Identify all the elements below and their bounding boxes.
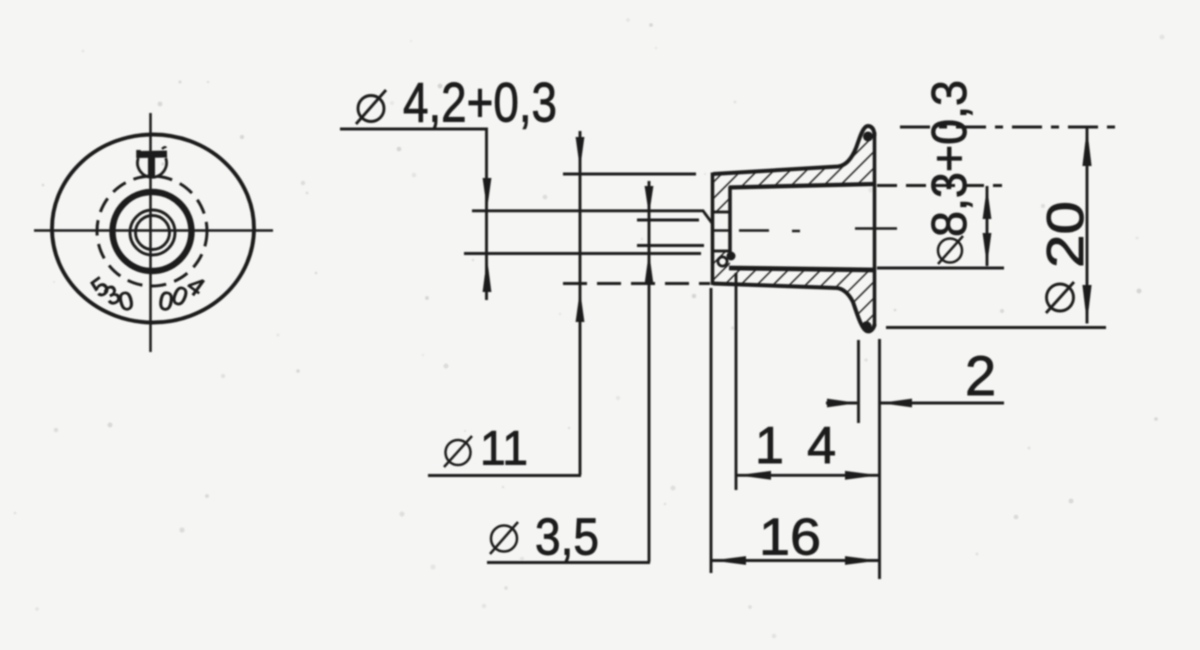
pocket bottom edge — [713, 250, 729, 253]
section left face — [711, 173, 715, 286]
nipple outer bottom line — [464, 252, 701, 255]
ext line D8,3 bottom — [877, 267, 1004, 270]
section lower wall hatched — [713, 251, 875, 331]
dim 2 line right with arrow — [880, 402, 1004, 405]
svg-text:20: 20 — [1037, 201, 1095, 268]
small hole in lower wall — [718, 257, 727, 266]
cavity left wall — [728, 187, 732, 255]
dim D11 arrow down — [576, 137, 585, 169]
ext line inner wall vertical — [735, 273, 738, 490]
dim D11 label — [444, 423, 528, 476]
front view centerline horizontal — [34, 229, 273, 232]
outer circle D20 front view — [52, 135, 254, 323]
section upper wall hatched — [713, 126, 875, 212]
dim D20 line vertical — [1086, 128, 1089, 324]
ext line D11 bottom dashed — [563, 282, 710, 285]
dim D4,2 arrow down — [483, 178, 492, 210]
ext line flange front vertical — [857, 340, 860, 423]
dim D8,3 line vertical — [986, 186, 989, 266]
front view centerline vertical — [149, 113, 152, 352]
dim D3,5 arrow down — [645, 186, 654, 215]
dim D3,5 arrow up — [645, 252, 654, 284]
ext line D20 bottom — [886, 326, 1106, 329]
dim D8,3 arrow down — [983, 233, 992, 266]
svg-text:3,5: 3,5 — [535, 509, 599, 567]
cavity corner blob — [727, 252, 736, 261]
ext line D11 top — [563, 173, 696, 176]
nipple outer top line — [472, 211, 712, 223]
dim D20 arrow up — [1082, 128, 1091, 166]
flange bottom tip blob — [861, 321, 871, 331]
cavity bottom line — [729, 268, 875, 270]
dim 16 arrow right — [845, 556, 879, 565]
dim 14 line — [737, 474, 879, 477]
centerline dashes — [711, 229, 897, 232]
dim 14 arrow right — [845, 471, 879, 480]
dim D3,5 label — [490, 509, 599, 567]
dim 14 arrow left — [738, 471, 772, 480]
dashed circle D11 front view — [97, 176, 207, 286]
dim 16 line — [712, 559, 879, 562]
section top outer edge and flange — [713, 126, 875, 174]
dim 16 arrow left — [713, 556, 747, 565]
trademark T symbol — [137, 147, 167, 178]
dim D4,2+0,3 label — [356, 71, 557, 134]
cavity top line — [729, 184, 875, 188]
svg-text:16: 16 — [759, 509, 821, 567]
nipple bore bottom line — [637, 244, 704, 247]
dim D11 arrow up — [576, 290, 585, 322]
svg-text:11: 11 — [480, 423, 528, 476]
svg-text:8,3+0,3: 8,3+0,3 — [923, 80, 977, 237]
section bottom outer edge and flange — [713, 284, 875, 332]
section right face — [873, 132, 877, 327]
curved part number 530 004 — [85, 270, 210, 318]
nipple bore top line — [637, 219, 699, 222]
thick circle D8.3 front view — [113, 192, 192, 271]
circle D4.4 front view — [130, 210, 175, 255]
ext line part right vertical — [878, 339, 881, 579]
ext line D8,3 top dashed — [877, 184, 1002, 187]
dim D4,2 arrow up — [483, 258, 492, 292]
dim 2 line left with arrow — [826, 402, 857, 405]
dim D20 label rotated — [1037, 201, 1095, 313]
ext line left face vertical — [710, 288, 713, 573]
dim D11 leader — [428, 474, 581, 477]
dim D8,3 label rotated — [923, 80, 977, 264]
dim D8,3 arrow up — [983, 187, 992, 219]
flange top tip blob — [863, 132, 873, 142]
pocket top edge — [713, 211, 729, 214]
ext line D20 top dashed — [900, 126, 1120, 129]
dim D4,2 leader line — [340, 129, 487, 300]
dim D20 arrow down — [1082, 285, 1091, 323]
circle D3.5 bore front view — [136, 216, 170, 250]
dim D3,5 line vertical — [648, 181, 651, 562]
svg-text:4,2+0,3: 4,2+0,3 — [403, 71, 557, 134]
dim D11 line vertical — [579, 131, 582, 475]
svg-text:2: 2 — [965, 344, 996, 407]
dim D3,5 leader — [487, 561, 650, 564]
